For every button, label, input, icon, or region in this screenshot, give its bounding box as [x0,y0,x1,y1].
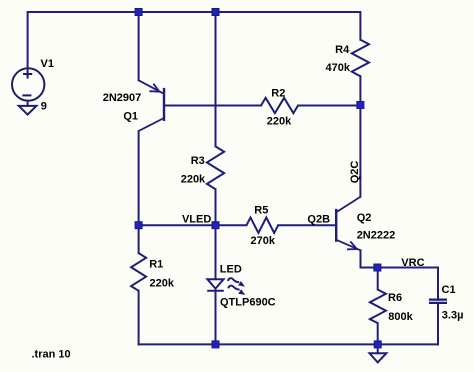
svg-text:Q1: Q1 [123,111,138,123]
svg-text:R2: R2 [271,87,285,99]
svg-text:Q2: Q2 [357,212,372,224]
svg-text:QTLP690C: QTLP690C [220,297,276,309]
svg-text:Q2C: Q2C [349,161,361,184]
svg-text:3.3µ: 3.3µ [442,310,464,322]
svg-text:800k: 800k [388,311,413,323]
svg-text:C1: C1 [442,284,456,296]
svg-text:R6: R6 [388,292,402,304]
svg-text:2N2907: 2N2907 [103,92,142,104]
svg-text:220k: 220k [150,277,175,289]
svg-text:R3: R3 [191,155,205,167]
svg-text:R4: R4 [335,44,350,56]
svg-text:R5: R5 [254,205,268,217]
svg-text:V1: V1 [41,58,54,70]
svg-text:470k: 470k [326,62,351,74]
svg-text:LED: LED [220,263,242,275]
svg-text:2N2222: 2N2222 [357,230,396,242]
svg-text:Q2B: Q2B [307,214,330,226]
svg-text:VRC: VRC [401,257,424,269]
svg-text:220k: 220k [267,116,292,128]
svg-text:220k: 220k [181,173,206,185]
svg-text:270k: 270k [251,235,276,247]
svg-text:VLED: VLED [182,214,211,226]
svg-text:R1: R1 [149,259,163,271]
svg-text:.tran 10: .tran 10 [32,348,71,360]
svg-text:9: 9 [41,101,47,113]
